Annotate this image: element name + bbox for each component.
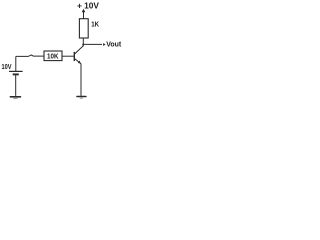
node collector junction xyxy=(82,44,84,46)
ground (battery) xyxy=(10,96,20,98)
wire: down to battery + xyxy=(15,56,17,71)
wire: base to Q1 xyxy=(62,55,74,57)
svg-text:10V: 10V xyxy=(2,64,12,71)
transistor Q1 emitter lead xyxy=(74,58,81,63)
transistor Q1 base bar xyxy=(73,52,75,61)
output arrowhead xyxy=(103,43,106,46)
svg-text:10K: 10K xyxy=(47,51,59,60)
resistor R1 1K (box) xyxy=(79,19,88,38)
wire: R1 bottom to collector node xyxy=(82,38,84,46)
wire: battery - to ground xyxy=(15,75,17,96)
svg-text:1K: 1K xyxy=(91,19,99,28)
battery V1 plus plate xyxy=(9,70,23,72)
ground (emitter) xyxy=(77,96,86,98)
wire: emitter down to ground xyxy=(80,64,82,96)
svg-text:+ 10V: + 10V xyxy=(77,1,100,10)
transistor Q1 emitter arrowhead xyxy=(78,61,81,64)
arrow to +10V (up arrowhead) xyxy=(83,12,85,19)
battery V1 minus plate xyxy=(13,73,19,75)
transistor Q1 collector lead xyxy=(74,46,83,54)
svg-text:Vout: Vout xyxy=(106,39,121,48)
resistor R2 10K (box) xyxy=(44,51,62,61)
wire: battery to R2 with kink xyxy=(16,55,44,57)
wire: collector node to output arrow xyxy=(83,43,102,45)
